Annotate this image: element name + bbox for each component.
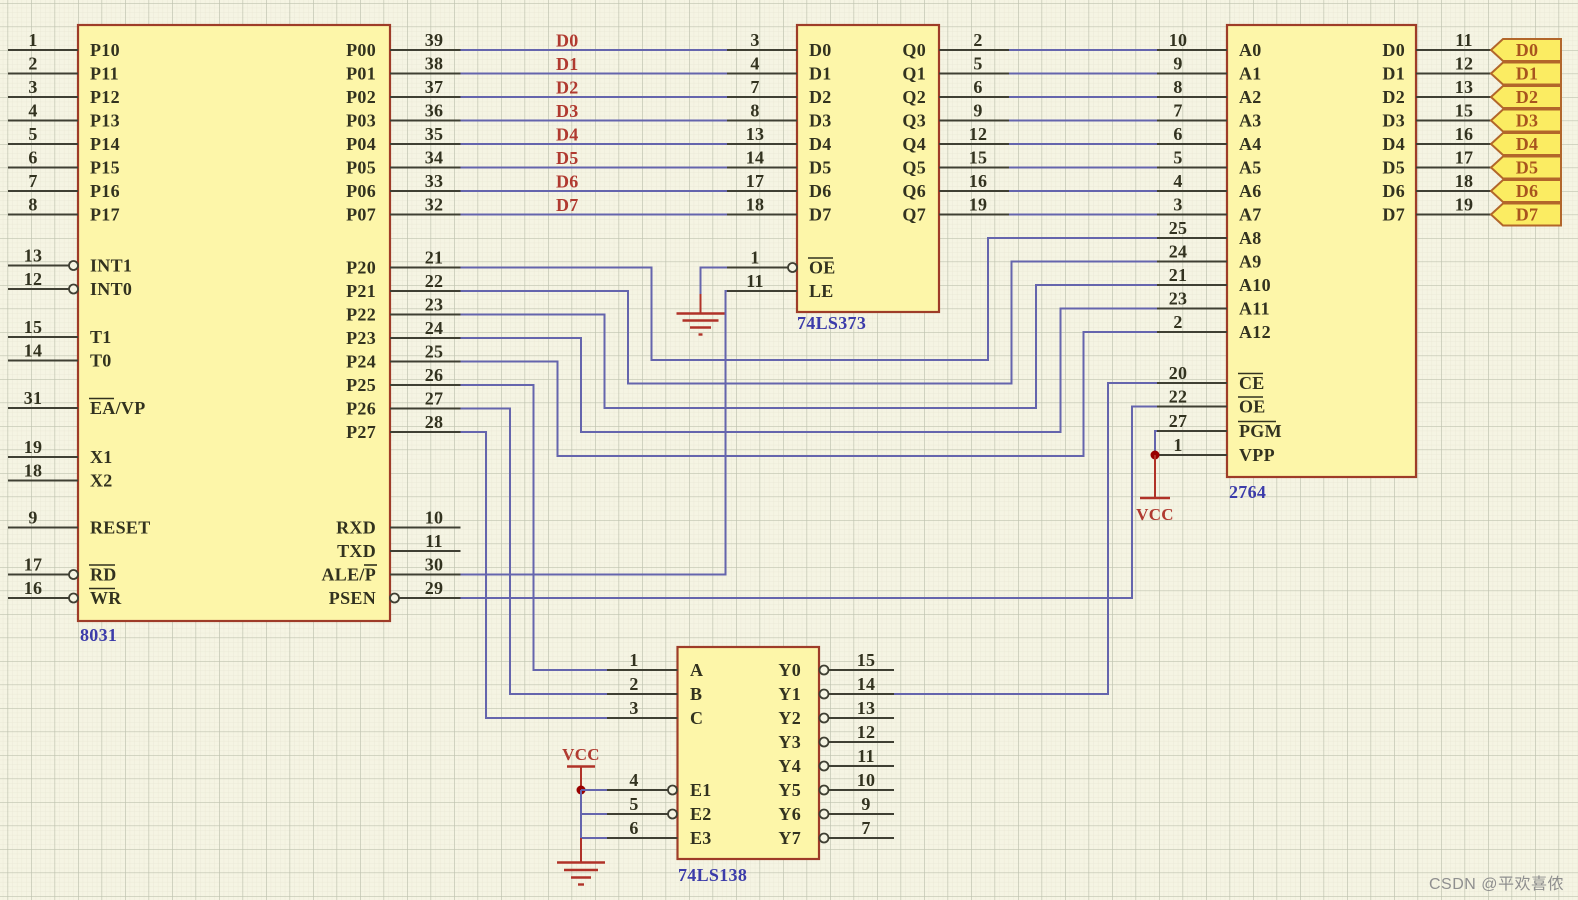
svg-text:22: 22 <box>1169 387 1188 407</box>
8031 pin 34 P05 <box>346 148 460 178</box>
ground symbol at 74LS373 OE <box>677 294 725 335</box>
svg-text:36: 36 <box>425 101 444 121</box>
wire P01 to 74LS373 D1 <box>461 73 728 75</box>
svg-text:P20: P20 <box>346 258 376 278</box>
svg-text:11: 11 <box>425 531 443 551</box>
svg-text:A1: A1 <box>1239 64 1262 84</box>
74LS138 pin 2 B <box>607 674 702 704</box>
74LS138 pin 4 E1 <box>607 770 712 800</box>
svg-text:8: 8 <box>750 101 759 121</box>
svg-text:P10: P10 <box>90 40 120 60</box>
8031 pin 2 P11 <box>8 54 119 84</box>
svg-text:4: 4 <box>750 54 759 74</box>
svg-text:RXD: RXD <box>336 518 376 538</box>
svg-text:11: 11 <box>746 271 764 291</box>
svg-text:P05: P05 <box>346 158 376 178</box>
8031 pin 4 P13 <box>8 101 120 131</box>
svg-text:P17: P17 <box>90 205 120 225</box>
svg-text:2: 2 <box>1173 312 1182 332</box>
svg-text:21: 21 <box>425 248 444 268</box>
svg-text:D0: D0 <box>1382 40 1405 60</box>
svg-text:D1: D1 <box>556 54 579 74</box>
74LS373 pin 9 Q3 <box>902 101 1009 131</box>
svg-text:9: 9 <box>28 508 37 528</box>
svg-text:12: 12 <box>1455 54 1474 74</box>
svg-text:12: 12 <box>857 722 876 742</box>
svg-text:D1: D1 <box>1516 64 1539 84</box>
svg-text:P15: P15 <box>90 158 120 178</box>
svg-text:D3: D3 <box>809 111 832 131</box>
2764 pin 4 A6 <box>1157 171 1262 201</box>
svg-text:P00: P00 <box>346 40 376 60</box>
svg-text:P06: P06 <box>346 181 376 201</box>
svg-text:Y7: Y7 <box>778 828 801 848</box>
svg-text:P07: P07 <box>346 205 376 225</box>
svg-text:D6: D6 <box>556 172 579 192</box>
8031 pin 29 PSEN <box>329 578 461 608</box>
svg-text:D0: D0 <box>1516 40 1539 60</box>
svg-text:E2: E2 <box>690 804 712 824</box>
svg-text:A8: A8 <box>1239 228 1262 248</box>
8031 pin 16 WR <box>8 578 122 608</box>
wire P02 to 74LS373 D2 <box>461 96 728 98</box>
8031 pin 18 X2 <box>8 461 113 491</box>
svg-text:35: 35 <box>425 124 444 144</box>
svg-text:D5: D5 <box>809 158 832 178</box>
wire P00 to 74LS373 D0 <box>461 49 728 51</box>
2764 pin 16 D4 <box>1382 124 1491 154</box>
junction dot VPP node <box>1151 451 1160 460</box>
svg-text:9: 9 <box>861 794 870 814</box>
svg-text:18: 18 <box>24 461 43 481</box>
svg-text:9: 9 <box>973 101 982 121</box>
svg-text:PSEN: PSEN <box>329 588 376 608</box>
svg-text:1: 1 <box>750 248 759 268</box>
wire P03 to 74LS373 D3 <box>461 120 728 122</box>
svg-text:15: 15 <box>969 148 988 168</box>
2764 pin 20 CE <box>1157 363 1265 393</box>
74LS138 pin 6 E3 <box>607 818 712 848</box>
svg-text:24: 24 <box>1169 242 1188 262</box>
svg-text:10: 10 <box>1169 30 1188 50</box>
svg-text:P14: P14 <box>90 134 120 154</box>
svg-text:P11: P11 <box>90 64 119 84</box>
74LS373 pin 2 Q0 <box>902 30 1009 60</box>
svg-text:4: 4 <box>1173 171 1182 191</box>
wire P25 to 74LS138 A <box>461 385 608 670</box>
svg-text:D2: D2 <box>556 78 579 98</box>
74LS373 pin 18 D7 <box>727 195 832 225</box>
svg-text:D3: D3 <box>556 101 579 121</box>
svg-text:D6: D6 <box>1516 181 1539 201</box>
svg-text:P22: P22 <box>346 305 376 325</box>
svg-text:D0: D0 <box>556 31 579 51</box>
wire PSEN to 2764 OE <box>461 407 1158 599</box>
svg-text:22: 22 <box>425 271 444 291</box>
svg-text:D7: D7 <box>556 195 579 215</box>
svg-text:14: 14 <box>746 148 765 168</box>
wire 74LS373 Q7 to 2764 A7 <box>1009 214 1157 216</box>
wire P06 to 74LS373 D6 <box>461 190 728 192</box>
8031 pin 36 P03 <box>346 101 460 131</box>
8031 pin 14 T0 <box>8 341 112 371</box>
svg-text:D7: D7 <box>1382 205 1405 225</box>
74LS138 pin 7 Y7 <box>778 818 894 848</box>
wire 2764 CE to 74LS138 Y1 <box>894 383 1157 694</box>
8031 pin 39 P00 <box>346 30 460 60</box>
svg-text:Q6: Q6 <box>902 181 926 201</box>
74LS373 pin 8 D3 <box>727 101 832 131</box>
svg-text:10: 10 <box>425 508 444 528</box>
wire P23 to 2764 A11 <box>461 309 1158 433</box>
wire to E2 <box>581 813 607 815</box>
svg-text:25: 25 <box>1169 218 1188 238</box>
74LS373 pin 17 D6 <box>727 171 832 201</box>
2764 pin 18 D6 <box>1382 171 1491 201</box>
wire to E3 <box>581 837 607 839</box>
svg-text:P13: P13 <box>90 111 120 131</box>
port flag D4 <box>1491 133 1561 155</box>
svg-text:Y3: Y3 <box>778 732 801 752</box>
svg-text:P12: P12 <box>90 87 120 107</box>
ground symbol below E3 <box>557 838 605 885</box>
svg-text:11: 11 <box>857 746 875 766</box>
74LS373 pin 4 D1 <box>727 54 832 84</box>
wire P05 to 74LS373 D5 <box>461 167 728 169</box>
port flag D1 <box>1491 63 1561 85</box>
wire P07 to 74LS373 D7 <box>461 214 728 216</box>
svg-text:PGM: PGM <box>1239 421 1282 441</box>
2764 pin 24 A9 <box>1157 242 1262 272</box>
svg-text:RD: RD <box>90 565 117 585</box>
svg-text:18: 18 <box>746 195 765 215</box>
8031 pin 25 P24 <box>346 342 460 372</box>
svg-text:CE: CE <box>1239 373 1265 393</box>
svg-text:D2: D2 <box>1516 87 1539 107</box>
wire P20 to 2764 A8 <box>461 238 1158 360</box>
VCC symbol at 74LS138 E1 <box>562 745 600 790</box>
svg-text:13: 13 <box>1455 77 1474 97</box>
svg-text:2: 2 <box>973 30 982 50</box>
svg-text:1: 1 <box>629 650 638 670</box>
svg-text:P04: P04 <box>346 134 376 154</box>
8031 pin 27 P26 <box>346 389 460 419</box>
svg-text:12: 12 <box>969 124 988 144</box>
svg-text:2764: 2764 <box>1229 482 1266 502</box>
svg-text:OE: OE <box>809 258 836 278</box>
svg-text:3: 3 <box>28 77 37 97</box>
svg-text:1: 1 <box>1173 435 1182 455</box>
wire 74LS373 Q1 to 2764 A1 <box>1009 73 1157 75</box>
svg-text:VCC: VCC <box>562 745 600 764</box>
svg-text:B: B <box>690 684 702 704</box>
8031 pin 9 RESET <box>8 508 151 538</box>
wire P26 to 74LS138 B <box>461 409 608 695</box>
svg-text:7: 7 <box>1173 101 1182 121</box>
8031 pin 3 P12 <box>8 77 120 107</box>
wire 74LS373 Q4 to 2764 A4 <box>1009 143 1157 145</box>
svg-text:34: 34 <box>425 148 444 168</box>
svg-text:9: 9 <box>1173 54 1182 74</box>
svg-text:A2: A2 <box>1239 87 1262 107</box>
wire ALE to 74LS373 LE <box>461 291 728 575</box>
svg-text:Q7: Q7 <box>902 205 926 225</box>
svg-text:P26: P26 <box>346 399 376 419</box>
svg-text:21: 21 <box>1169 265 1188 285</box>
74LS373 pin 12 Q4 <box>902 124 1009 154</box>
svg-text:C: C <box>690 708 703 728</box>
svg-text:6: 6 <box>28 148 37 168</box>
svg-text:D4: D4 <box>556 125 579 145</box>
svg-text:5: 5 <box>1173 148 1182 168</box>
svg-text:37: 37 <box>425 77 444 97</box>
svg-text:P02: P02 <box>346 87 376 107</box>
svg-text:4: 4 <box>629 770 638 790</box>
74LS373 pin 7 D2 <box>727 77 832 107</box>
wire P04 to 74LS373 D4 <box>461 143 728 145</box>
8031 pin 5 P14 <box>8 124 120 154</box>
74LS373 pin 16 Q6 <box>902 171 1009 201</box>
svg-text:14: 14 <box>857 674 876 694</box>
svg-text:D2: D2 <box>1382 87 1405 107</box>
8031 pin 37 P02 <box>346 77 460 107</box>
svg-text:Y2: Y2 <box>778 708 801 728</box>
IC U2 74LS373 body <box>797 25 939 312</box>
74LS373 pin 3 D0 <box>727 30 832 60</box>
svg-text:E3: E3 <box>690 828 712 848</box>
svg-text:12: 12 <box>24 269 43 289</box>
svg-text:19: 19 <box>1455 195 1474 215</box>
VCC symbol at 2764 VPP <box>1136 455 1174 524</box>
74LS138 pin 3 C <box>607 698 703 728</box>
svg-text:15: 15 <box>24 317 43 337</box>
svg-text:3: 3 <box>750 30 759 50</box>
svg-text:D0: D0 <box>809 40 832 60</box>
port flag D3 <box>1491 110 1561 132</box>
svg-text:18: 18 <box>1455 171 1474 191</box>
svg-text:A10: A10 <box>1239 275 1271 295</box>
svg-text:Y1: Y1 <box>778 684 801 704</box>
port flag D5 <box>1491 157 1561 179</box>
svg-text:39: 39 <box>425 30 444 50</box>
svg-text:27: 27 <box>425 389 444 409</box>
svg-text:T1: T1 <box>90 327 112 347</box>
svg-text:VCC: VCC <box>1136 505 1174 524</box>
svg-text:D6: D6 <box>809 181 832 201</box>
wire P27 to 74LS138 C <box>461 432 608 718</box>
svg-text:P23: P23 <box>346 328 376 348</box>
svg-text:A3: A3 <box>1239 111 1262 131</box>
wire 74LS373 Q0 to 2764 A0 <box>1009 49 1157 51</box>
2764 pin 3 A7 <box>1157 195 1262 225</box>
svg-text:1: 1 <box>28 30 37 50</box>
2764 pin 27 PGM <box>1157 411 1282 441</box>
8031 pin 7 P16 <box>8 171 120 201</box>
2764 pin 11 D0 <box>1382 30 1491 60</box>
svg-text:3: 3 <box>1173 195 1182 215</box>
svg-text:29: 29 <box>425 578 444 598</box>
8031 pin 15 T1 <box>8 317 112 347</box>
svg-text:D7: D7 <box>809 205 832 225</box>
svg-text:A12: A12 <box>1239 322 1271 342</box>
wire 74LS373 Q6 to 2764 A6 <box>1009 190 1157 192</box>
8031 pin 17 RD <box>8 555 117 585</box>
svg-text:EA/VP: EA/VP <box>90 398 146 418</box>
2764 pin 9 A1 <box>1157 54 1262 84</box>
svg-text:Q3: Q3 <box>902 111 926 131</box>
wire 74LS373 OE to ground <box>701 268 728 297</box>
wire P24 to 2764 A12 <box>461 332 1158 456</box>
8031 pin 21 P20 <box>346 248 460 278</box>
8031 pin 35 P04 <box>346 124 460 154</box>
74LS138 pin 1 A <box>607 650 703 680</box>
74LS373 pin 14 D5 <box>727 148 832 178</box>
svg-text:38: 38 <box>425 54 444 74</box>
svg-text:17: 17 <box>1455 148 1474 168</box>
svg-text:VPP: VPP <box>1239 445 1275 465</box>
svg-text:CSDN @平欢喜侬: CSDN @平欢喜侬 <box>1429 875 1564 893</box>
74LS138 pin 10 Y5 <box>778 770 894 800</box>
svg-text:74LS138: 74LS138 <box>678 865 747 885</box>
2764 pin 21 A10 <box>1157 265 1271 295</box>
2764 pin 8 A2 <box>1157 77 1262 107</box>
svg-text:T0: T0 <box>90 351 112 371</box>
svg-text:28: 28 <box>425 412 444 432</box>
74LS138 pin 15 Y0 <box>778 650 894 680</box>
svg-text:33: 33 <box>425 171 444 191</box>
svg-text:X1: X1 <box>90 447 113 467</box>
svg-text:6: 6 <box>973 77 982 97</box>
svg-text:D1: D1 <box>1382 64 1405 84</box>
74LS373 pin 13 D4 <box>727 124 832 154</box>
svg-text:P24: P24 <box>346 352 376 372</box>
wire P21 to 2764 A9 <box>461 262 1158 384</box>
svg-text:A6: A6 <box>1239 181 1262 201</box>
svg-text:D3: D3 <box>1382 111 1405 131</box>
svg-text:32: 32 <box>425 195 444 215</box>
svg-text:A7: A7 <box>1239 205 1262 225</box>
svg-text:5: 5 <box>629 794 638 814</box>
2764 pin 13 D2 <box>1382 77 1491 107</box>
svg-text:P03: P03 <box>346 111 376 131</box>
8031 pin 30 ALE/P <box>321 555 460 585</box>
svg-text:7: 7 <box>750 77 759 97</box>
svg-text:7: 7 <box>861 818 870 838</box>
svg-text:2: 2 <box>629 674 638 694</box>
svg-text:P27: P27 <box>346 422 376 442</box>
svg-text:8: 8 <box>28 195 37 215</box>
8031 pin 24 P23 <box>346 318 460 348</box>
svg-text:P21: P21 <box>346 281 376 301</box>
wire 74LS373 Q2 to 2764 A2 <box>1009 96 1157 98</box>
svg-text:25: 25 <box>425 342 444 362</box>
svg-text:14: 14 <box>24 341 43 361</box>
svg-text:INT1: INT1 <box>90 256 132 276</box>
wire 74LS373 Q3 to 2764 A3 <box>1009 120 1157 122</box>
svg-text:E1: E1 <box>690 780 712 800</box>
svg-text:A9: A9 <box>1239 252 1262 272</box>
svg-text:Q5: Q5 <box>902 158 926 178</box>
2764 pin 1 VPP <box>1157 435 1275 465</box>
8031 pin 28 P27 <box>346 412 460 442</box>
8031 pin 12 INT0 <box>8 269 132 299</box>
svg-text:6: 6 <box>1173 124 1182 144</box>
svg-text:10: 10 <box>857 770 876 790</box>
svg-text:16: 16 <box>1455 124 1474 144</box>
svg-text:D5: D5 <box>556 148 579 168</box>
74LS138 pin 5 E2 <box>607 794 712 824</box>
svg-text:D3: D3 <box>1516 111 1539 131</box>
74LS373 pin 5 Q1 <box>902 54 1009 84</box>
svg-text:P16: P16 <box>90 181 120 201</box>
svg-text:23: 23 <box>1169 289 1188 309</box>
74LS138 pin 9 Y6 <box>778 794 894 824</box>
svg-text:A4: A4 <box>1239 134 1262 154</box>
8031 pin 33 P06 <box>346 171 460 201</box>
74LS373 pin 11 LE <box>727 271 834 301</box>
svg-text:26: 26 <box>425 365 444 385</box>
2764 pin 15 D3 <box>1382 101 1491 131</box>
svg-text:16: 16 <box>969 171 988 191</box>
svg-text:P01: P01 <box>346 64 376 84</box>
svg-text:P25: P25 <box>346 375 376 395</box>
8031 pin 31 EA/VP <box>8 388 146 418</box>
svg-text:LE: LE <box>809 281 834 301</box>
8031 pin 38 P01 <box>346 54 460 84</box>
8031 pin 11 TXD <box>337 531 460 561</box>
svg-text:A: A <box>690 660 703 680</box>
svg-text:D1: D1 <box>809 64 832 84</box>
IC U3 2764 body <box>1227 25 1416 477</box>
svg-text:3: 3 <box>629 698 638 718</box>
port flag D6 <box>1491 180 1561 202</box>
2764 pin 5 A5 <box>1157 148 1262 178</box>
svg-text:6: 6 <box>629 818 638 838</box>
svg-text:D4: D4 <box>809 134 832 154</box>
2764 pin 22 OE <box>1157 387 1266 417</box>
svg-text:Q2: Q2 <box>902 87 926 107</box>
svg-text:Y6: Y6 <box>778 804 801 824</box>
2764 pin 2 A12 <box>1157 312 1271 342</box>
svg-text:8: 8 <box>1173 77 1182 97</box>
svg-text:WR: WR <box>90 588 122 608</box>
svg-text:17: 17 <box>746 171 765 191</box>
svg-text:19: 19 <box>969 195 988 215</box>
svg-text:D4: D4 <box>1516 134 1539 154</box>
IC U4 74LS138 body <box>678 647 820 859</box>
74LS373 pin 6 Q2 <box>902 77 1009 107</box>
svg-text:X2: X2 <box>90 471 113 491</box>
8031 pin 6 P15 <box>8 148 120 178</box>
svg-text:D5: D5 <box>1516 158 1539 178</box>
svg-text:20: 20 <box>1169 363 1188 383</box>
svg-text:A11: A11 <box>1239 299 1270 319</box>
svg-text:23: 23 <box>425 295 444 315</box>
svg-text:Q1: Q1 <box>902 64 926 84</box>
svg-text:D5: D5 <box>1382 158 1405 178</box>
2764 pin 19 D7 <box>1382 195 1491 225</box>
8031 pin 19 X1 <box>8 437 113 467</box>
port flag D0 <box>1491 39 1561 61</box>
svg-text:4: 4 <box>28 101 37 121</box>
74LS373 pin 15 Q5 <box>902 148 1009 178</box>
svg-text:30: 30 <box>425 555 444 575</box>
8031 pin 23 P22 <box>346 295 460 325</box>
junction dot E1 node <box>577 786 586 795</box>
svg-text:OE: OE <box>1239 397 1266 417</box>
74LS138 pin 13 Y2 <box>778 698 894 728</box>
svg-text:31: 31 <box>24 388 43 408</box>
